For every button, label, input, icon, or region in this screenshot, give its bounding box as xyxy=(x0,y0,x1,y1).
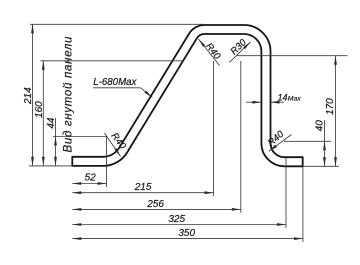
extension line left baseline xyxy=(29,165,72,167)
dimension 215 xyxy=(72,192,213,194)
dimension 170 xyxy=(335,56,337,167)
extension line right baseline xyxy=(303,165,339,167)
extension line 52 vertical xyxy=(106,137,108,188)
svg-text:L-680Max: L-680Max xyxy=(93,77,137,88)
extension line 170 level xyxy=(237,55,348,57)
svg-text:160: 160 xyxy=(34,101,45,118)
svg-text:44: 44 xyxy=(46,117,57,129)
extension line 256 vertical xyxy=(240,61,242,213)
dimension 256 xyxy=(72,208,241,210)
svg-text:R40: R40 xyxy=(266,128,287,148)
svg-text:R30: R30 xyxy=(229,37,250,58)
dimension 325 xyxy=(72,224,286,226)
svg-text:40: 40 xyxy=(315,120,326,132)
extension line 44 level xyxy=(53,136,107,138)
dimension 52 xyxy=(72,183,106,185)
dimension 44 xyxy=(55,118,57,166)
svg-text:256: 256 xyxy=(146,199,164,210)
leader R40 top bend xyxy=(199,39,220,66)
extension line 40 level xyxy=(284,140,331,142)
dimension 350 xyxy=(72,238,303,240)
svg-text:R40: R40 xyxy=(203,41,223,62)
svg-text:Max: Max xyxy=(288,95,301,102)
dimension 214 xyxy=(32,24,34,166)
svg-text:170: 170 xyxy=(325,98,336,115)
extension line 350 vertical xyxy=(302,166,304,242)
dimension 14 Max xyxy=(246,101,261,103)
leader R30 xyxy=(230,42,251,63)
dimension 40 xyxy=(324,120,326,166)
svg-text:350: 350 xyxy=(178,228,195,239)
extension line 325 vertical xyxy=(285,158,287,229)
extension line 160 level xyxy=(41,60,184,62)
leader R40 bottom-right bend xyxy=(269,135,292,152)
svg-text:52: 52 xyxy=(85,173,97,184)
svg-text:214: 214 xyxy=(23,87,34,105)
svg-text:R40: R40 xyxy=(109,131,129,152)
svg-text:215: 215 xyxy=(134,182,152,193)
extension line 215 vertical xyxy=(213,61,215,196)
svg-text:325: 325 xyxy=(168,214,185,225)
dimension 160 xyxy=(42,61,44,166)
extension line top (peak level) xyxy=(30,23,204,25)
svg-text:Вид гнутой панели: Вид гнутой панели xyxy=(63,36,75,153)
bent panel profile outline xyxy=(72,25,302,166)
leader R40 bottom-left bend xyxy=(105,133,121,156)
svg-text:14: 14 xyxy=(277,92,287,102)
